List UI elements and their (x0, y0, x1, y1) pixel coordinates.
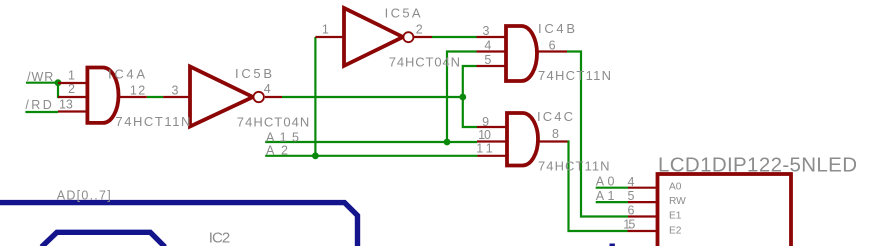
svg-text:15: 15 (623, 218, 635, 232)
svg-text:IC5B: IC5B (235, 66, 272, 81)
svg-text:4: 4 (628, 175, 635, 189)
svg-text:/RD: /RD (25, 98, 51, 112)
svg-text:IC2: IC2 (209, 229, 231, 246)
svg-text:AD[0..7]: AD[0..7] (57, 188, 111, 202)
svg-text:3: 3 (171, 83, 178, 97)
svg-text:IC4A: IC4A (108, 66, 145, 81)
svg-text:2: 2 (68, 82, 75, 96)
svg-text:74HCT11N: 74HCT11N (538, 159, 610, 174)
svg-text:1: 1 (322, 22, 329, 36)
svg-text:A1: A1 (596, 189, 615, 203)
svg-text:3: 3 (483, 24, 490, 38)
svg-text:5: 5 (484, 53, 491, 67)
svg-text:74HCT11N: 74HCT11N (538, 68, 611, 83)
svg-text:11: 11 (476, 142, 492, 156)
svg-text:74HCT11N: 74HCT11N (115, 114, 190, 129)
svg-text:4: 4 (264, 82, 271, 96)
svg-text:RW: RW (669, 196, 686, 207)
svg-text:4: 4 (484, 39, 491, 53)
svg-text:A0: A0 (669, 182, 682, 193)
svg-text:10: 10 (478, 128, 491, 142)
svg-text:1: 1 (68, 69, 75, 83)
svg-text:IC5A: IC5A (385, 5, 421, 20)
svg-text:74HCT04N: 74HCT04N (237, 114, 309, 129)
svg-text:9: 9 (482, 115, 489, 129)
svg-text:5: 5 (628, 189, 635, 203)
svg-text:13: 13 (59, 98, 73, 112)
svg-text:8: 8 (552, 127, 559, 141)
svg-text:E2: E2 (669, 226, 682, 237)
svg-text:6: 6 (628, 204, 635, 218)
svg-text:6: 6 (549, 39, 556, 53)
svg-text:IC4C: IC4C (537, 109, 573, 124)
svg-text:E1: E1 (669, 210, 682, 221)
svg-text:2: 2 (416, 23, 423, 37)
svg-text:A15: A15 (266, 131, 299, 145)
svg-text:/WR: /WR (27, 70, 53, 84)
svg-text:LCD1DIP122-5NLED: LCD1DIP122-5NLED (658, 154, 857, 177)
svg-text:IC4B: IC4B (538, 21, 575, 36)
svg-text:12: 12 (130, 83, 145, 97)
svg-text:A0: A0 (596, 174, 615, 188)
svg-text:74HCT04N: 74HCT04N (389, 55, 460, 70)
